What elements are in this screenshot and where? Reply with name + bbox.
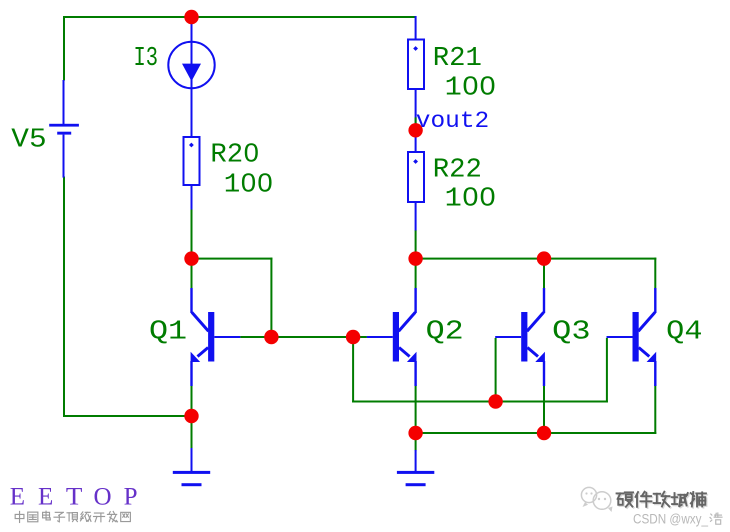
svg-text:E: E (10, 484, 25, 511)
svg-text:O: O (94, 484, 112, 511)
svg-text:I3: I3 (134, 44, 159, 74)
svg-text:Q2: Q2 (426, 317, 464, 347)
svg-text:Q3: Q3 (552, 317, 590, 347)
svg-text:R22: R22 (433, 155, 482, 185)
svg-text:Q1: Q1 (149, 317, 187, 347)
svg-text:CSDN @wxy_: CSDN @wxy_ (633, 511, 708, 526)
svg-text:P: P (124, 484, 138, 511)
svg-text:V5: V5 (11, 126, 46, 156)
svg-text:E: E (38, 484, 53, 511)
svg-text:Q4: Q4 (666, 317, 702, 347)
svg-text:vout2: vout2 (416, 108, 489, 135)
svg-text:R21: R21 (433, 44, 482, 74)
svg-text:T: T (66, 484, 83, 511)
